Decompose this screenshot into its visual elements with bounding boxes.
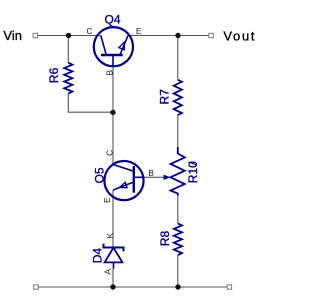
wire Q5 emitter to D4 cathode xyxy=(112,190,114,248)
svg-text:Q4: Q4 xyxy=(104,12,120,26)
transistor Q4 xyxy=(94,27,133,66)
wire Q5 base to R10 wiper xyxy=(144,176,165,178)
svg-text:R6: R6 xyxy=(47,67,61,83)
svg-text:C: C xyxy=(105,150,115,156)
terminal Vout xyxy=(209,33,213,37)
svg-text:B: B xyxy=(105,70,115,76)
potentiometer R10 xyxy=(170,147,184,196)
wire R8 bottom to ground rail xyxy=(177,255,179,287)
node junction R8/ground xyxy=(175,284,180,289)
transistor Q5 xyxy=(104,161,143,200)
slashed zero of R10 label xyxy=(189,162,197,165)
svg-text:R8: R8 xyxy=(158,231,172,247)
terminal ground left xyxy=(34,285,38,289)
node junction R6/Q4 base xyxy=(110,110,115,115)
resistor R8 xyxy=(174,223,182,255)
svg-text:R7: R7 xyxy=(158,89,172,105)
wire R7 bottom to R10 top xyxy=(177,115,179,147)
svg-text:C: C xyxy=(87,26,93,36)
resistor R7 xyxy=(174,80,182,115)
svg-text:B: B xyxy=(148,168,154,178)
svg-text:A: A xyxy=(103,269,113,275)
wire bottom ground rail xyxy=(38,286,227,288)
wire Vin terminal to Q4 collector xyxy=(38,35,101,37)
svg-text:Vout: Vout xyxy=(223,29,256,44)
wire Q4 base to Q5 collector xyxy=(112,66,114,164)
label R10 xyxy=(186,161,200,183)
wire Vout node down to R7 top xyxy=(177,36,179,80)
svg-text:E: E xyxy=(102,197,112,203)
wiper arrow of R10 xyxy=(164,175,171,180)
wire Vin node down to R6 top xyxy=(67,36,69,63)
svg-text:Vin: Vin xyxy=(3,28,22,43)
svg-text:Q5: Q5 xyxy=(92,167,106,183)
node junction Vin/R6 xyxy=(66,33,71,38)
svg-text:D4: D4 xyxy=(90,248,104,264)
zener diode D4 xyxy=(104,244,124,269)
wire R10 bottom to R8 top xyxy=(177,196,179,224)
wire D4 anode to ground rail xyxy=(112,269,114,287)
terminal Vin xyxy=(33,33,37,37)
svg-text:E: E xyxy=(136,26,142,36)
resistor R6 xyxy=(64,63,72,94)
svg-text:K: K xyxy=(105,233,115,239)
node junction D4 anode/ground xyxy=(110,284,115,289)
wire Q4 emitter to Vout terminal xyxy=(128,35,209,37)
wire R6 bottom to Q4 base node xyxy=(68,94,113,113)
node junction Vout/R7 xyxy=(175,33,180,38)
terminal ground right xyxy=(227,285,231,289)
